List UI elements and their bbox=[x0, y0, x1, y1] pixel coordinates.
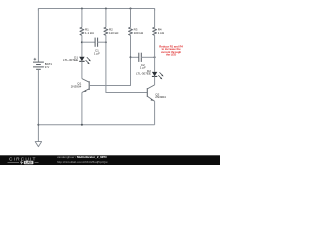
LED D1 bbox=[79, 57, 91, 64]
wire R1 to LED D1 bbox=[81, 35, 83, 57]
junction C1 / R1 branch bbox=[81, 41, 83, 43]
annotation note bbox=[159, 44, 183, 56]
wire top rail bbox=[38, 9, 154, 11]
svg-text:2N3904: 2N3904 bbox=[71, 84, 82, 88]
svg-text:the LED: the LED bbox=[166, 53, 176, 57]
svg-text:http://circuitlab.com/c6KU25sd: http://circuitlab.com/c6KU25sdj5pzQw bbox=[57, 160, 108, 164]
wire Q1 emitter to ground rail bbox=[81, 93, 83, 125]
svg-text:2N3904: 2N3904 bbox=[155, 95, 166, 99]
footer credit text bbox=[57, 155, 108, 164]
ground bbox=[35, 142, 41, 147]
wire Q1 base to R3 branch bbox=[89, 57, 130, 85]
junction C2 / R4 branch bbox=[154, 56, 156, 58]
svg-text:vandenghuer / Multivibrator_2_: vandenghuer / Multivibrator_2_NPN bbox=[57, 155, 107, 159]
wire R3 top lead bbox=[130, 9, 132, 28]
svg-text:100 kΩ: 100 kΩ bbox=[134, 31, 144, 35]
wire R2 to Q2 base bbox=[106, 35, 147, 92]
wire R1 top lead bbox=[81, 9, 83, 28]
capacitor C2 bbox=[131, 53, 155, 62]
resistor R3 bbox=[129, 27, 133, 35]
wire D2 to Q2 collector bbox=[154, 76, 156, 85]
wire R3 to C2 junction bbox=[130, 35, 132, 57]
junction C2 / R3 branch bbox=[130, 56, 132, 58]
footer bar bbox=[0, 155, 220, 165]
footer logo CIRCUIT LAB bbox=[8, 156, 39, 164]
resistor R1 bbox=[80, 27, 84, 35]
wire R2 top lead bbox=[105, 9, 107, 28]
svg-text:LTL-307EE: LTL-307EE bbox=[63, 58, 78, 62]
battery BAT1 bbox=[33, 62, 44, 69]
svg-text:LAB: LAB bbox=[25, 161, 32, 165]
wire battery bottom lead bbox=[37, 69, 39, 141]
battery BAT1 plus sign bbox=[34, 58, 37, 61]
wire R4 to LED D2 bbox=[154, 35, 156, 72]
resistor R4 bbox=[153, 27, 157, 35]
wire R4 top lead bbox=[154, 9, 156, 28]
junction top rail / R3 branch bbox=[130, 8, 132, 10]
wire battery top lead bbox=[37, 9, 39, 63]
transistor Q2 bbox=[147, 85, 154, 101]
svg-text:110 kΩ: 110 kΩ bbox=[109, 31, 119, 35]
junction Q1 emitter / ground rail bbox=[81, 124, 83, 126]
svg-text:LTL-307EE: LTL-307EE bbox=[136, 72, 151, 76]
LED D2 bbox=[152, 72, 164, 79]
junction battery / ground rail bbox=[37, 124, 39, 126]
svg-text:1 µF: 1 µF bbox=[94, 51, 100, 55]
junction top rail / R2 branch bbox=[105, 8, 107, 10]
wire D1 to Q1 collector bbox=[81, 61, 83, 78]
resistor R2 bbox=[104, 27, 108, 35]
junction C1 / R2 branch bbox=[105, 41, 107, 43]
svg-text:9 V: 9 V bbox=[45, 65, 50, 69]
svg-text:1.1 kΩ: 1.1 kΩ bbox=[85, 31, 95, 35]
svg-text:1 µF: 1 µF bbox=[140, 66, 146, 70]
capacitor C1 bbox=[82, 38, 106, 47]
wire ground rail bbox=[38, 124, 154, 126]
svg-text:1 kΩ: 1 kΩ bbox=[158, 31, 165, 35]
junction top rail / R1 branch bbox=[81, 8, 83, 10]
transistor Q1 bbox=[82, 79, 89, 93]
wire Q2 emitter to ground rail bbox=[154, 101, 156, 125]
